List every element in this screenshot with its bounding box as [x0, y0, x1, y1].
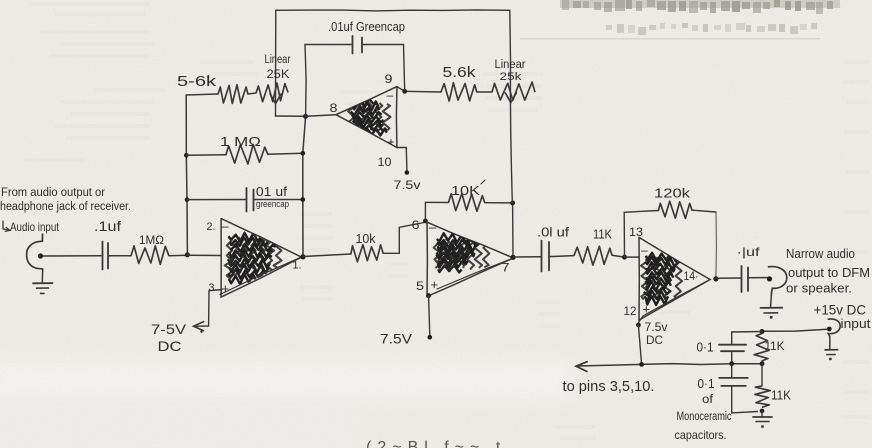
+15V input jack J3 [827, 319, 840, 337]
svg-text:2.: 2. [207, 221, 216, 233]
pin 13 label [629, 225, 648, 257]
junction: U1 output node [300, 254, 305, 259]
node B junction [303, 114, 308, 119]
wire U3 output to node B [306, 115, 336, 117]
pin 3 label [209, 281, 230, 296]
svg-text:·|uf: ·|uf [737, 245, 761, 259]
value label "120k" [654, 186, 691, 201]
svg-text:DC: DC [646, 335, 663, 347]
svg-text:Linear: Linear [495, 59, 526, 71]
svg-text:+: + [388, 135, 395, 149]
ground (output jack) [761, 295, 783, 318]
resistor R7 11K (series) [574, 246, 612, 265]
value label "11K" (series) [593, 228, 613, 242]
value label "1M&#937;" (feedback) [220, 135, 261, 149]
wire C1 to R1 [108, 255, 131, 257]
svg-text:11K: 11K [765, 339, 785, 353]
label "7.5V DC" (U1 bias) [151, 321, 187, 354]
svg-text:–: – [387, 88, 394, 102]
svg-text:of: of [702, 394, 714, 406]
svg-text:1.: 1. [293, 260, 302, 272]
svg-text:greencap: greencap [256, 199, 289, 210]
junction U2 pin6 [423, 219, 428, 224]
value label ".01uf Greencap" [328, 20, 405, 34]
label "to pins 3,5,10." [563, 379, 655, 395]
svg-text:7.5v: 7.5v [394, 178, 421, 192]
wire R5 to U2 output rail [510, 201, 515, 258]
svg-text:Linear: Linear [265, 54, 291, 66]
label "Narrow audio output to DFM or speaker." [786, 247, 870, 296]
pin 9 label [385, 72, 394, 102]
label "7.5v DC" (U4 bias) [645, 322, 668, 347]
wire: left feedback rail [184, 95, 189, 255]
output jack J2 [767, 267, 787, 296]
capacitor C5 .1uf (output) [742, 266, 749, 292]
value label "1M&#937;" [139, 233, 164, 247]
input jack J1 [27, 234, 44, 269]
svg-text:7.5V: 7.5V [380, 332, 412, 347]
wire U4 pin13 in [625, 256, 640, 258]
svg-text:.01uf Greencap: .01uf Greencap [328, 20, 405, 34]
svg-text:10: 10 [378, 155, 392, 169]
svg-text:capacitors.: capacitors. [675, 428, 727, 442]
pin 14 label [684, 269, 699, 283]
value label ".01uf" (coupling) [537, 225, 569, 240]
svg-text:3.: 3. [209, 282, 218, 294]
wire C4 to R7 [549, 256, 574, 257]
svg-text:7: 7 [502, 261, 510, 275]
label "+15v DC input" [814, 302, 871, 332]
capacitor C4 .01uf (coupling) [542, 241, 550, 272]
value label "0.1 of Monoceramic capacitors" [675, 377, 732, 442]
pin 8 label [330, 101, 338, 115]
ground (divider) [753, 409, 772, 428]
junction U4 pin13 [622, 255, 627, 260]
op-amp U4 [638, 237, 711, 324]
node A junction [185, 252, 190, 257]
capacitor C3 .01uf Greencap (top) [305, 36, 405, 116]
svg-text:0·1: 0·1 [697, 341, 714, 355]
pin 2 label [207, 219, 230, 234]
resistor R3 1M (feedback) [186, 144, 302, 164]
pin 7 label [502, 261, 510, 275]
wire U2 pin5 to 7.5V [426, 293, 432, 339]
svg-text:.1uf: .1uf [94, 219, 121, 234]
svg-text:DC: DC [158, 338, 182, 354]
junction U4 output [713, 276, 718, 281]
resistor R4 10k (series) [351, 245, 383, 262]
capacitor C2 .01uf greencap [187, 188, 303, 212]
capacitor C7 0.1 (lower) [719, 364, 757, 413]
pin 6 label [412, 218, 438, 235]
svg-text:.01 uf: .01 uf [252, 184, 287, 199]
svg-text:6: 6 [412, 218, 420, 232]
value label "10k" [356, 231, 376, 246]
op-amp U3 (top) [336, 87, 397, 148]
wire node C to branch A [732, 331, 762, 334]
value label "5-6k" [177, 74, 217, 90]
svg-text:+: + [431, 277, 439, 292]
value label "0.1" (upper) [697, 341, 714, 355]
svg-text:+: + [222, 281, 230, 296]
wire U2 out to C4 [513, 256, 542, 258]
value label "Linear 25K" (left) [265, 54, 291, 81]
svg-text:+: + [643, 302, 651, 317]
junction U2 output [510, 255, 515, 260]
svg-text:5-6k: 5-6k [177, 74, 217, 90]
wire VR1 wiper to node B [276, 115, 306, 117]
svg-text:–: – [222, 219, 230, 234]
svg-text:8: 8 [330, 101, 338, 115]
svg-text:9: 9 [385, 72, 393, 86]
svg-text:–: – [429, 220, 437, 235]
ground (+15V jack) [825, 337, 838, 361]
resistor R6 5.6k (right) [405, 83, 492, 101]
svg-text:Monoceramic: Monoceramic [677, 411, 732, 423]
svg-text:11K: 11K [771, 389, 792, 403]
wire: mid rail to pins 3,5,10 [576, 361, 764, 371]
value label "11K" (upper) [765, 339, 785, 353]
svg-text:7-5V: 7-5V [151, 321, 187, 337]
svg-text:13: 13 [629, 225, 643, 239]
value label "11K" (lower) [771, 389, 792, 403]
resistor R8 120k (U4 feedback) [624, 201, 716, 279]
resistor R10 11K (lower) [755, 364, 770, 408]
capacitor C6 0.1 (upper) [719, 332, 746, 364]
potentiometer VR1 25K linear (left) [256, 10, 288, 116]
wire jack to C1 [43, 255, 101, 257]
svg-text:5.6k: 5.6k [443, 65, 477, 81]
wire U4 out to C5 [716, 277, 742, 279]
svg-text:12: 12 [624, 304, 637, 318]
op-amp U2 [427, 222, 513, 296]
wire R1 to node A [169, 254, 187, 257]
svg-text:.0l uf: .0l uf [537, 225, 569, 240]
svg-text:to pins 3,5,10.: to pins 3,5,10. [563, 379, 655, 395]
svg-text:Audio input: Audio input [10, 220, 60, 234]
svg-text:headphone jack of receiver.: headphone jack of receiver. [0, 201, 131, 213]
wire: right feedback rail (node B to U1 output) [301, 116, 306, 256]
svg-text:1MΩ: 1MΩ [139, 233, 164, 247]
svg-text:10k: 10k [356, 231, 376, 246]
wire C5 to output jack [748, 277, 769, 279]
op-amp U1 [220, 219, 301, 298]
resistor R1 1M [131, 246, 169, 264]
wire: top rail [276, 10, 510, 11]
value label "Linear 25k" (right) [495, 59, 526, 83]
pin 5 label [416, 277, 438, 293]
svg-text:120k: 120k [654, 186, 691, 201]
svg-text:10K: 10K [451, 183, 480, 198]
svg-text:(2~Bl f~~ t: (2~Bl f~~ t [366, 439, 506, 448]
svg-text:output to DFM: output to DFM [788, 266, 870, 280]
svg-text:From audio output or: From audio output or [1, 187, 105, 199]
svg-text:0·1: 0·1 [698, 377, 715, 391]
resistor R5 10K (U2 feedback) [425, 194, 512, 221]
pin 12 label [624, 302, 651, 319]
pin 10 label [378, 135, 395, 169]
svg-text:14·: 14· [684, 269, 699, 283]
wire rail to R2 [186, 94, 218, 95]
svg-text:25K: 25K [267, 69, 290, 81]
value label "10K" [451, 180, 485, 198]
wire R7 to U4 pin13 [612, 255, 625, 257]
resistor R2 5.6k (left) [218, 85, 248, 104]
wire U3 pin9 [397, 87, 407, 94]
wire node A to U1 pin2 [187, 254, 221, 256]
value label "5.6k" (right) [443, 65, 477, 81]
ground (input jack) [33, 269, 53, 294]
label "7.5V" (U2 bias) [380, 332, 412, 347]
wire U4 pin12 down [636, 323, 642, 365]
label "From audio output or" [0, 187, 131, 213]
value label ".1uf" [94, 219, 121, 234]
label "7.5v" (U3 bias) [394, 178, 421, 192]
svg-text:or speaker.: or speaker. [786, 282, 852, 296]
pin 1 label [293, 260, 302, 272]
wire U1 out to R4 [303, 254, 351, 257]
wire U3 pin10 to 7.5v [397, 148, 409, 175]
resistor R9 11K (upper) [754, 334, 769, 362]
value label ".1uf" (output) [737, 245, 761, 259]
svg-text:1 MΩ: 1 MΩ [220, 135, 261, 149]
wire U1 pin3 to 7.5V [194, 290, 223, 333]
wire +15V to divider node C [762, 329, 827, 331]
value label ".01 uf greencap" [252, 184, 289, 210]
svg-text:25k: 25k [500, 71, 523, 83]
label "Audio input" [3, 220, 60, 234]
capacitor C1 0.1uF [103, 242, 109, 270]
wire R2 to VR1 [248, 93, 256, 94]
svg-text:–: – [641, 243, 648, 257]
node C junction [760, 329, 765, 334]
svg-text:7.5v: 7.5v [645, 322, 668, 334]
svg-text:input: input [841, 316, 871, 331]
svg-text:Narrow audio: Narrow audio [786, 247, 855, 261]
svg-text:11K: 11K [593, 228, 613, 242]
potentiometer VR2 25K linear (right) [492, 10, 535, 203]
svg-text:5: 5 [416, 279, 424, 293]
wire R4 to U2 pin6 [383, 223, 424, 254]
